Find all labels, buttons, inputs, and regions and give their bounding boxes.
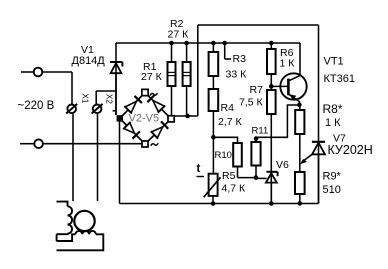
svg-text:КТ361: КТ361 (324, 73, 355, 85)
svg-text:Х2: Х2 (105, 94, 114, 104)
svg-text:R4: R4 (221, 102, 235, 114)
svg-text:1 К: 1 К (280, 58, 296, 70)
svg-text:27 К: 27 К (141, 71, 163, 83)
svg-text:R11: R11 (252, 126, 269, 137)
svg-text:1 К: 1 К (325, 117, 341, 129)
svg-text:Х1: Х1 (81, 94, 90, 104)
svg-text:R5: R5 (222, 170, 236, 182)
svg-text:t: t (197, 163, 201, 175)
svg-text:КУ202Н: КУ202Н (328, 143, 373, 157)
svg-text:510: 510 (323, 184, 341, 196)
svg-text:R9*: R9* (323, 171, 342, 183)
svg-text:V2-V5: V2-V5 (129, 113, 160, 125)
svg-text:R8*: R8* (323, 102, 343, 116)
svg-text:27 К: 27 К (168, 29, 190, 41)
svg-text:VT1: VT1 (324, 56, 344, 68)
svg-text:4,7 К: 4,7 К (222, 183, 247, 195)
svg-text:~220 В: ~220 В (18, 100, 55, 112)
svg-text:7,5 К: 7,5 К (239, 97, 264, 109)
svg-text:V6: V6 (276, 159, 289, 171)
svg-text:R10: R10 (215, 150, 232, 161)
svg-text:33 К: 33 К (226, 69, 248, 81)
svg-text:Д814Д: Д814Д (72, 55, 106, 67)
svg-text:R3: R3 (233, 53, 247, 65)
svg-text:2,7 К: 2,7 К (218, 116, 243, 128)
svg-text:R7: R7 (250, 84, 264, 96)
